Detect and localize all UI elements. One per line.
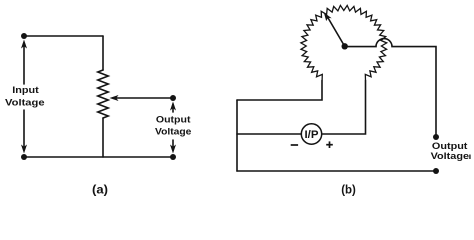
arrowhead up on output stub (a) [170,102,176,111]
svg-text:Voltage: Voltage [155,127,191,138]
node output top (a) [170,95,176,101]
wire wiper arrow (a) [116,97,173,99]
wire input arrow shaft lower [23,110,25,149]
node output top (b) [433,134,439,140]
wire top rail (a) [24,35,103,37]
svg-text:I/P: I/P [305,129,319,141]
wire I/P left [237,133,301,135]
svg-text:(b): (b) [341,184,356,196]
resistor R top lead [102,36,104,70]
wire bottom rail (a) [24,156,173,158]
svg-text:Input: Input [12,85,39,96]
arrowhead left on wiper (a) [110,95,119,101]
arrowhead down on output stub (a) [170,145,176,154]
wiper arm (b) [328,18,345,47]
polarity plus [326,144,333,146]
arrowhead wiper (b) [324,12,332,21]
wire output arrow stub upper (a) [172,104,174,112]
node top-left (a) [21,33,27,39]
potentiometer toothed track [301,5,387,80]
node bottom-left (a) [21,154,27,160]
resistor R bottom lead [102,118,104,157]
svg-text:Output: Output [156,115,192,126]
wire output arrow stub lower (a) [172,140,174,149]
wire input arrow shaft upper [23,44,25,84]
node output bottom (a) [170,154,176,160]
wiper hub node (b) [342,43,348,49]
pot left terminal leg + wire to left rail [237,80,322,100]
node output bottom (b) [433,168,439,174]
polarity minus [291,144,298,146]
wire bottom rail (b) [237,170,436,172]
resistor R zigzag [98,70,108,118]
wire left rail (b) [236,100,238,171]
pot right terminal leg down to I/P wire [322,80,366,134]
svg-text:(a): (a) [92,184,108,196]
svg-text:Voltage: Voltage [431,151,469,162]
svg-text:Voltage: Voltage [5,97,45,108]
source I/P circle [301,124,321,144]
artifact tick after Voltage [469,155,471,160]
arrowhead up toward top-left node [21,40,27,49]
arrowhead down toward bottom-left node [21,145,27,154]
wire wiper output with hop over track [345,39,437,137]
